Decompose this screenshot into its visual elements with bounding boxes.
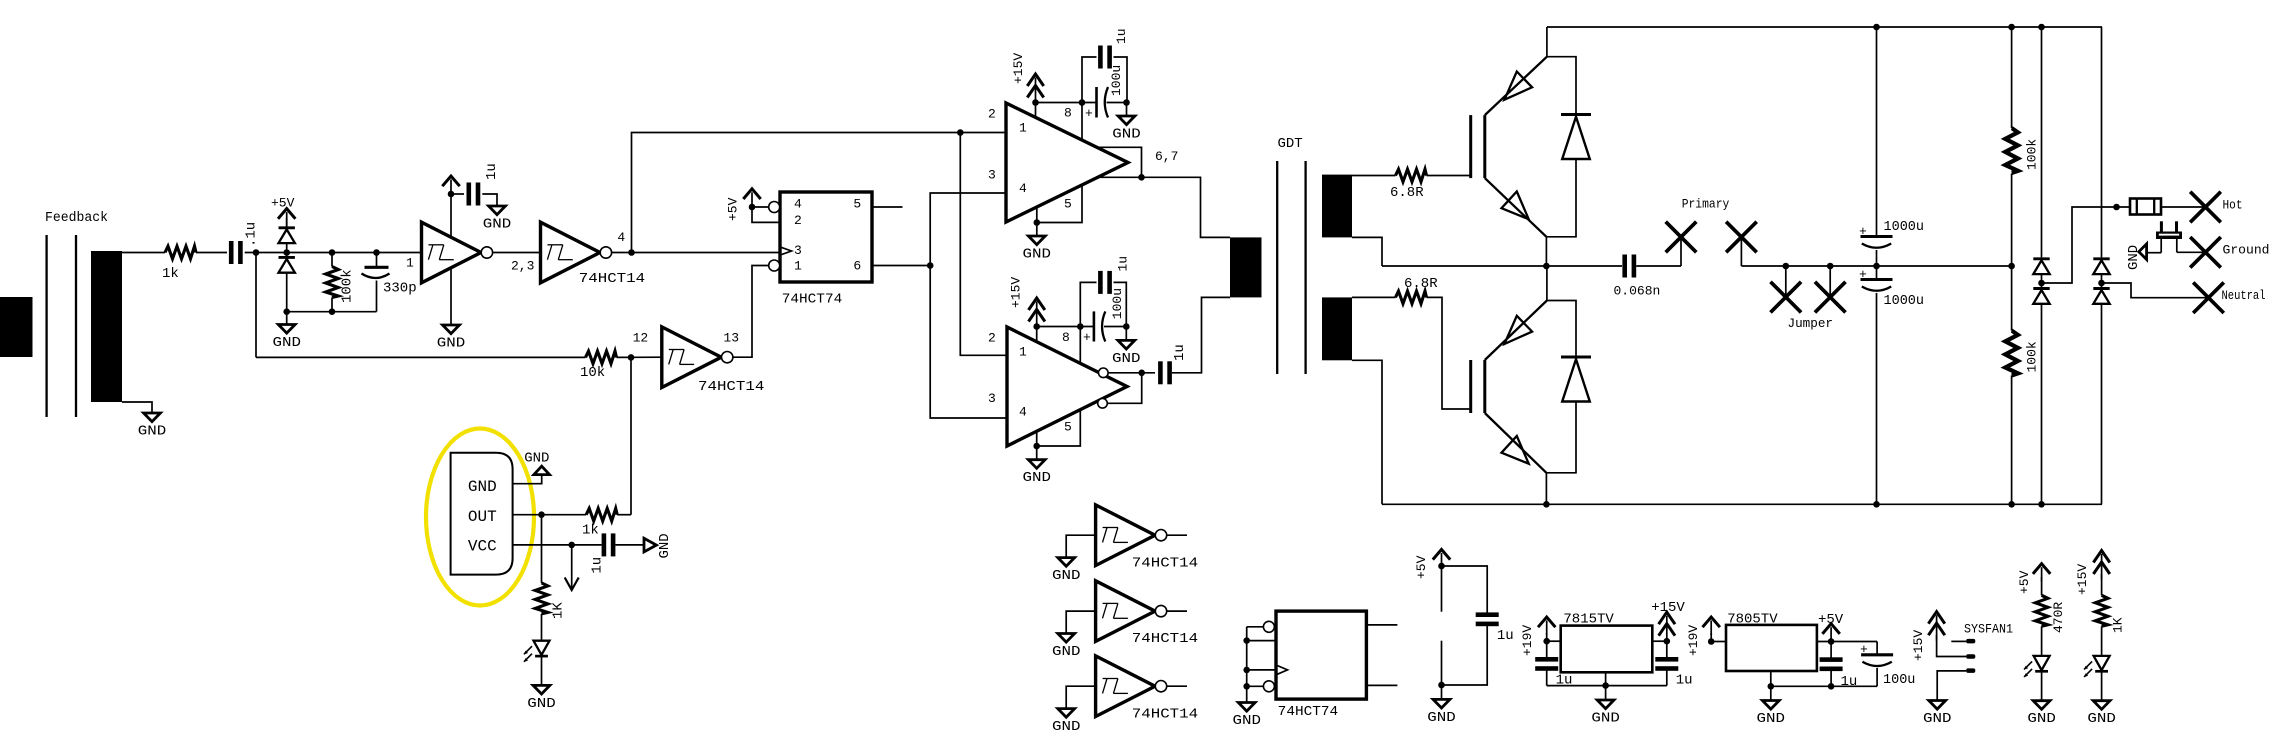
wire C1 to node A <box>245 252 287 254</box>
svg-text:100u: 100u <box>1109 65 1124 96</box>
+5V at FF <box>726 189 761 221</box>
resistor R8 100k <box>2005 128 2039 173</box>
rail A to driver inputs 3 <box>930 193 1007 418</box>
U3 pin5 wire <box>1037 185 1082 223</box>
svg-text:6.8R: 6.8R <box>1404 276 1438 292</box>
svg-text:7815TV: 7815TV <box>1563 612 1614 628</box>
svg-text:1u: 1u <box>1841 674 1858 690</box>
wire FF pin6 to driver rail <box>872 265 930 267</box>
wire C9 to GDT primary bottom <box>1172 297 1230 372</box>
ground under LED3 <box>2087 701 2116 728</box>
svg-text:1u: 1u <box>590 557 606 574</box>
svg-text:+5V: +5V <box>726 197 741 221</box>
OSC1 vcc pin wire <box>513 544 602 546</box>
wire fuse to Hot <box>2161 206 2206 208</box>
spare inverter U1F <box>1066 656 1198 722</box>
clamp diode D1 <box>279 218 295 253</box>
U4 output bubbles <box>1098 368 1108 408</box>
ground under U6 <box>1757 701 1786 728</box>
svg-text:74HCT74: 74HCT74 <box>782 291 842 307</box>
wire T1 top to R1 <box>122 252 165 254</box>
spare inverter U1E <box>1066 581 1198 647</box>
spare inverter U1D <box>1066 505 1198 571</box>
svg-text:4: 4 <box>794 197 802 212</box>
svg-text:1k: 1k <box>162 266 179 282</box>
ground under LED2 <box>2027 701 2056 728</box>
U5 output wire <box>1652 638 1670 645</box>
FF preset bubble pin4 <box>769 202 780 213</box>
U4 pin5 wire <box>1037 410 1081 446</box>
wire LED1 to ground <box>541 657 543 685</box>
Q2 collector to midline <box>1546 266 1548 301</box>
Q1 collector riser <box>1546 27 1548 57</box>
svg-text:GND: GND <box>657 533 673 558</box>
svg-text:+15V: +15V <box>1911 630 1926 661</box>
svg-text:Hot: Hot <box>2223 197 2243 212</box>
svg-text:100u: 100u <box>1110 288 1125 319</box>
capacitor C17 100u <box>1860 642 1915 688</box>
terminal Ground <box>2190 237 2269 268</box>
+15V at U3 <box>1011 53 1044 118</box>
resistor R10 470R <box>2035 595 2066 633</box>
svg-text:74HCT14: 74HCT14 <box>579 271 645 287</box>
wire LED3 to ground <box>2101 672 2103 701</box>
svg-text:6: 6 <box>853 258 861 273</box>
node D2 anode <box>283 308 290 315</box>
svg-text:+5V: +5V <box>2017 570 2032 594</box>
terminal Hot <box>2190 192 2242 223</box>
FF clock symbol pin3 <box>780 247 792 255</box>
OSC1 out pin wire <box>513 514 587 516</box>
wire Y1 to Ground terminal <box>2177 251 2206 253</box>
svg-text:SYSFAN1: SYSFAN1 <box>1964 622 2013 637</box>
ground under U3 <box>1023 236 1052 263</box>
svg-text:74HCT14: 74HCT14 <box>1132 706 1198 722</box>
capacitor C15 1u <box>1655 641 1692 688</box>
LED3 <box>2084 656 2110 677</box>
U2B input tie rail <box>1243 627 1276 703</box>
svg-text:+19V: +19V <box>1520 625 1535 656</box>
wire C4 to side ground <box>615 544 644 546</box>
rectifier leg B <box>2098 27 2105 504</box>
node at OSC out <box>538 511 545 518</box>
svg-text:Feedback: Feedback <box>45 211 108 226</box>
capacitor C4 1u <box>590 533 616 573</box>
capacitor C1 .1u <box>229 222 260 264</box>
+15V at U4 <box>1009 277 1045 342</box>
transistor Q2 IGBT <box>1471 301 1547 473</box>
ground under LED1 <box>527 685 556 712</box>
driver U3 top amplifier <box>988 103 1128 222</box>
resistor R4 1k <box>582 508 617 538</box>
svg-text:1u: 1u <box>1676 672 1693 688</box>
fan pin2 wire <box>1937 635 1967 657</box>
wire R10 to LED2 <box>2041 626 2043 656</box>
svg-text:+15V: +15V <box>1651 600 1685 616</box>
bus capacitor rail <box>1873 24 1880 508</box>
+5V rail cap section <box>1414 549 1450 688</box>
ground at U4 bypass <box>1112 327 1141 367</box>
svg-text:74HCT14: 74HCT14 <box>698 379 764 395</box>
ground at U1E <box>1052 634 1081 661</box>
wire GDT bottom secondary bottom to B- rail <box>1352 360 1382 504</box>
svg-text:2: 2 <box>988 331 996 346</box>
wire node12 down to oscillator <box>630 357 632 514</box>
wire OSC out down to R5 <box>541 515 543 583</box>
resistor R9 100k <box>2005 331 2039 376</box>
wire R6 to Q1 gate <box>1427 175 1471 177</box>
wire U1C out to FF pin1 <box>733 266 769 358</box>
ground at C3 <box>483 206 512 233</box>
svg-text:1u: 1u <box>1497 628 1514 644</box>
node midpoint <box>1543 263 1550 270</box>
U4 power wire <box>1037 323 1130 330</box>
wire +5V to pin4 bubble <box>752 206 769 208</box>
ground at U2B <box>1232 703 1261 730</box>
flip-flop U2 74HCT74 <box>780 192 872 307</box>
+15V at fan <box>1911 612 1945 661</box>
+5V at LED2 <box>2017 564 2050 596</box>
supply down-arrow at vcc <box>565 545 579 590</box>
svg-text:1: 1 <box>1019 121 1027 136</box>
line filter capacitor Y1 <box>2156 221 2182 252</box>
U2B clock symbol <box>1276 665 1288 675</box>
midline wire left <box>1382 265 1622 267</box>
node C2 top <box>373 249 380 256</box>
svg-text:74HCT74: 74HCT74 <box>1278 704 1338 720</box>
hot feed wire <box>2042 204 2131 283</box>
svg-text:470R: 470R <box>2051 602 2066 633</box>
svg-text:+5V: +5V <box>1818 612 1844 628</box>
diode D8 <box>2093 283 2109 304</box>
svg-text:330p: 330p <box>383 280 417 296</box>
wire node to pin2 <box>752 207 780 222</box>
ground at U1F <box>1052 709 1081 733</box>
svg-text:+15V: +15V <box>1009 277 1024 308</box>
svg-text:100k: 100k <box>2025 341 2040 372</box>
terminal X4 Jumper <box>1815 263 1846 313</box>
transformer GDT <box>1230 136 1352 374</box>
svg-text:1u: 1u <box>1172 344 1188 361</box>
U3 output wires 6,7 <box>1097 147 1230 237</box>
svg-text:GND: GND <box>524 451 549 467</box>
feedback wire to 10k <box>256 356 586 358</box>
capacitor C6 1u <box>1082 28 1129 102</box>
spare flip-flop U2B 74HCT74 <box>1276 611 1366 720</box>
rectifier leg A <box>2038 24 2045 508</box>
U4 gnd stub <box>1033 432 1040 460</box>
wire node A down to feedback line <box>255 253 257 358</box>
+5V at U6 output <box>1818 612 1844 642</box>
node on driver rail A <box>927 262 934 269</box>
U1A vcc stub <box>448 191 455 238</box>
wire GDT top secondary to R6 <box>1352 175 1396 177</box>
connector SYSFAN1 <box>1964 622 2013 673</box>
svg-text:GDT: GDT <box>1278 136 1303 152</box>
midline wire right <box>1741 265 2011 267</box>
svg-text:1: 1 <box>794 258 802 273</box>
svg-text:Jumper: Jumper <box>1788 316 1834 331</box>
svg-text:1000u: 1000u <box>1884 294 1925 309</box>
resistor R7 6.8R <box>1396 276 1439 304</box>
node 12 <box>628 354 635 361</box>
+5V symbol above clamp diodes <box>271 196 295 227</box>
svg-text:3: 3 <box>988 168 996 183</box>
svg-text:+5V: +5V <box>271 196 295 211</box>
terminal X3 Jumper <box>1771 263 1834 331</box>
FF clear bubble pin1 <box>769 260 780 271</box>
node A <box>253 249 260 256</box>
ground at U3 bypass <box>1112 103 1141 143</box>
svg-text:+19V: +19V <box>1686 625 1701 656</box>
svg-text:13: 13 <box>723 331 739 346</box>
U3 pin8 drop <box>1081 103 1083 141</box>
svg-text:6,7: 6,7 <box>1155 149 1178 164</box>
svg-text:+: + <box>1860 642 1868 657</box>
svg-text:12: 12 <box>633 331 649 346</box>
svg-text:1u: 1u <box>484 163 500 180</box>
wire rail B to driver1 pin1 <box>960 132 1006 134</box>
svg-text:2: 2 <box>794 213 802 228</box>
svg-text:+: + <box>1859 224 1867 239</box>
wire clamp bottom bus <box>287 311 377 313</box>
wire node4 up and across to drivers <box>632 133 961 253</box>
U2B output stubs <box>1366 625 1397 686</box>
U4 pin8 drop <box>1079 327 1081 364</box>
svg-text:74HCT14: 74HCT14 <box>1132 555 1198 571</box>
capacitor C5 100u <box>1085 65 1124 121</box>
terminal Neutral <box>2193 282 2265 313</box>
inverter U1C 74HCT14 <box>662 327 765 395</box>
svg-text:4: 4 <box>1019 405 1027 420</box>
svg-text:OUT: OUT <box>468 508 497 526</box>
capacitor C12 1000u <box>1859 267 1924 309</box>
ground up-arrow at OSC1 <box>524 451 549 475</box>
OSC1 gnd pin wire <box>513 475 542 484</box>
ground under U1A <box>437 325 466 352</box>
FF pin labels <box>794 197 861 274</box>
svg-text:10k: 10k <box>580 365 605 381</box>
wire C3 to ground <box>482 194 497 206</box>
T1 bottom wire to ground <box>122 402 152 413</box>
capacitor C10 0.068n <box>1614 255 1661 299</box>
FF pin5 stub <box>872 206 903 208</box>
neutral feed wire <box>2102 283 2209 298</box>
LED1 <box>524 641 550 662</box>
svg-text:7805TV: 7805TV <box>1727 612 1778 628</box>
+5V arrow at U1A <box>442 176 459 194</box>
wire U1B out to FF pin3 <box>612 252 781 254</box>
resistor R5 1K <box>535 583 566 619</box>
driver U4 bottom amplifier <box>988 327 1127 446</box>
svg-text:100k: 100k <box>340 269 356 303</box>
resistor R2 100k <box>326 253 356 312</box>
wire R3 to U1C <box>617 356 662 358</box>
svg-text:8: 8 <box>1064 106 1072 121</box>
diode D4 across Q2 <box>1546 301 1591 473</box>
rail B down to driver2 pin1 <box>960 133 1007 356</box>
oscillator module OSC1 <box>451 453 513 575</box>
svg-text:1: 1 <box>1019 345 1027 360</box>
svg-text:+5V: +5V <box>1414 555 1429 579</box>
svg-text:0.068n: 0.068n <box>1614 284 1661 299</box>
Q2 emitter to B- rail <box>1545 473 1547 505</box>
node R2 top <box>329 249 336 256</box>
wire GDT bottom secondary to R7 <box>1352 296 1396 298</box>
wire LED2 to ground <box>2041 672 2043 701</box>
wire R7 to Q2 gate <box>1427 297 1471 409</box>
svg-text:2: 2 <box>988 107 996 122</box>
LED2 <box>2024 656 2050 677</box>
svg-text:100u: 100u <box>1883 673 1915 688</box>
resistor R3 10k <box>580 351 617 381</box>
svg-text:1u: 1u <box>1115 256 1130 272</box>
inverter U1B 74HCT14 <box>541 222 646 287</box>
svg-text:8: 8 <box>1062 330 1070 345</box>
+15V at U5 output <box>1651 600 1685 641</box>
U6 ground bus <box>1768 671 1878 701</box>
capacitor C7 100u <box>1083 288 1125 345</box>
fan pin3 wire to ground <box>1937 671 1966 701</box>
wire GDT top secondary bottom to midline <box>1352 237 1382 266</box>
svg-text:100k: 100k <box>2025 139 2040 170</box>
inverter U1A 74HCT14 <box>422 222 493 283</box>
svg-text:5: 5 <box>1064 197 1072 212</box>
wire R1 to C1 <box>196 252 227 254</box>
fuse F1 <box>2130 199 2161 215</box>
svg-text:5: 5 <box>853 197 861 212</box>
svg-text:Primary: Primary <box>1682 196 1730 211</box>
capacitor C3 1u <box>467 163 501 205</box>
ground at fan <box>1923 701 1952 728</box>
svg-text:Neutral: Neutral <box>2222 288 2266 303</box>
node at FF pin4 <box>749 204 756 211</box>
node at clamp junction <box>283 249 290 256</box>
ground under clamp <box>272 312 301 351</box>
capacitor C2 330p <box>362 253 417 312</box>
wire R4 to node12 riser <box>617 514 631 516</box>
svg-text:+: + <box>1085 106 1093 121</box>
resistor R11 1K <box>2095 595 2125 633</box>
svg-text:VCC: VCC <box>468 538 497 556</box>
U3 power wire <box>1036 99 1130 106</box>
transistor Q1 IGBT <box>1471 57 1547 237</box>
wire node A to R2 top <box>287 252 422 254</box>
svg-text:+: + <box>1859 267 1867 282</box>
diode D6 <box>2033 283 2049 304</box>
wire R5 to LED1 <box>541 614 543 641</box>
regulator U6 7805TV <box>1726 612 1817 671</box>
resistor R6 6.8R <box>1390 169 1427 201</box>
+19V at U5 input <box>1520 617 1561 656</box>
capacitor C13 1u <box>1442 566 1514 685</box>
svg-text:74HCT14: 74HCT14 <box>1132 631 1198 647</box>
+19V at U6 input <box>1686 617 1726 656</box>
wire U1A out to U1B <box>493 252 541 254</box>
capacitor C11 1000u <box>1859 220 1924 248</box>
svg-text:3: 3 <box>988 391 996 406</box>
node Q2 emitter on rail <box>1543 501 1550 508</box>
svg-text:.1u: .1u <box>244 222 260 247</box>
svg-text:1K: 1K <box>2110 617 2125 633</box>
node on driver input rail B <box>957 129 964 136</box>
Q1 emitter to midline <box>1545 237 1547 266</box>
U1A gnd stub <box>450 268 452 326</box>
node R2 bottom <box>329 308 336 315</box>
ground left-arrow at Y1 <box>2126 244 2161 270</box>
feedback transformer T1 <box>0 211 122 417</box>
resistor R1 1k <box>162 246 196 282</box>
svg-text:1000u: 1000u <box>1884 220 1925 235</box>
svg-text:4: 4 <box>1019 181 1027 196</box>
fan pin1 stub <box>1951 640 1966 642</box>
ground right-arrow at C4 <box>644 533 673 558</box>
regulator U5 7815TV <box>1561 612 1653 673</box>
svg-text:Ground: Ground <box>2223 243 2270 258</box>
svg-text:1k: 1k <box>582 522 599 538</box>
wire C10 to X1 <box>1636 265 1681 267</box>
B+ top rail <box>1547 26 2102 28</box>
+15V at LED3 <box>2075 551 2110 596</box>
svg-text:5: 5 <box>1064 420 1072 435</box>
U2B bubbles <box>1263 621 1274 692</box>
diode D7 <box>2093 259 2109 283</box>
svg-text:4: 4 <box>617 230 625 245</box>
diode D5 <box>2033 259 2049 283</box>
svg-text:+15V: +15V <box>2075 564 2090 595</box>
bleeder resistor rail <box>2008 24 2015 508</box>
U3 gnd stub <box>1034 209 1041 237</box>
node at vcc <box>568 542 575 549</box>
ground under T1 <box>138 413 167 440</box>
svg-text:GND: GND <box>468 478 497 496</box>
U4 output wires <box>1107 370 1155 404</box>
highlight ellipse around oscillator <box>426 429 534 606</box>
wire vcc node to C3 <box>451 193 464 195</box>
terminal X2 Primary <box>1726 222 1757 266</box>
svg-text:1: 1 <box>406 256 414 271</box>
svg-text:+: + <box>1083 330 1091 345</box>
U5 ground bus <box>1547 672 1667 700</box>
svg-text:GND: GND <box>2126 245 2142 270</box>
svg-text:+15V: +15V <box>1011 53 1026 84</box>
wire R11 to LED3 <box>2101 626 2103 656</box>
terminal X1 Primary <box>1666 196 1730 266</box>
svg-text:3: 3 <box>794 243 802 258</box>
clamp diode D2 <box>279 253 295 312</box>
B- bottom rail <box>1382 503 2102 505</box>
svg-text:1K: 1K <box>550 602 566 619</box>
ground under C13 <box>1427 685 1456 726</box>
svg-text:2,3: 2,3 <box>511 259 534 274</box>
ground under U5 <box>1591 700 1620 727</box>
svg-text:1u: 1u <box>1114 28 1129 44</box>
node 4 <box>628 249 635 256</box>
diode D3 across Q1 <box>1546 57 1591 237</box>
svg-text:6.8R: 6.8R <box>1390 185 1424 201</box>
capacitor C16 1u <box>1820 642 1858 691</box>
capacitor C14 1u <box>1535 641 1572 688</box>
ground under U4 <box>1022 460 1051 487</box>
capacitor C8 1u <box>1080 256 1130 327</box>
capacitor C9 1u coupling <box>1158 344 1188 384</box>
ground at U1D <box>1052 558 1081 585</box>
U6 output wire <box>1817 638 1877 645</box>
